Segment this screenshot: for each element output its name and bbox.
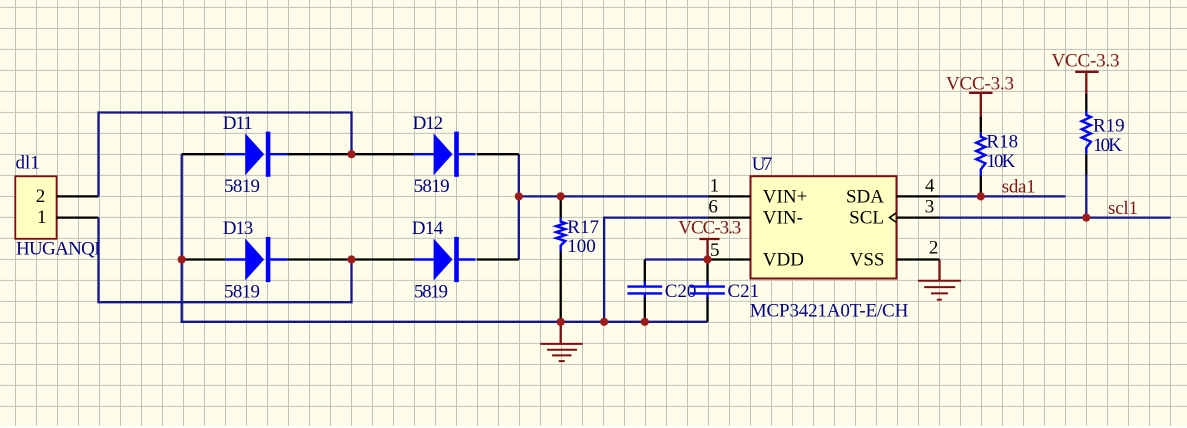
wire: bridge left vertical down to ground rail [182, 154, 708, 322]
label VCC-3.3 (pin5) [678, 218, 741, 239]
svg-text:SDA: SDA [846, 186, 884, 207]
junction node bridge row2 right [347, 255, 355, 263]
svg-text:SCL: SCL [849, 208, 884, 229]
label R19 value 10K [1093, 135, 1122, 156]
net label sda1 [1002, 176, 1036, 197]
pin wire between D11 and D12 (black) [287, 153, 415, 155]
label D14 value 5819 [414, 282, 448, 303]
connector dl1 [15, 176, 56, 239]
svg-text:VIN-: VIN- [763, 208, 803, 229]
U7 pin 2 VSS [850, 237, 940, 270]
svg-text:D14: D14 [412, 218, 444, 239]
diode D13 [225, 237, 287, 282]
pin 1 of dl1 [57, 216, 99, 218]
diode D14 [414, 237, 476, 282]
net label scl1 [1108, 198, 1138, 219]
capacitor C21 top pin [706, 260, 708, 283]
pin wire D11 anode (black) [182, 153, 226, 155]
resistor R18 top pin [980, 116, 982, 133]
capacitor C20 top pin [644, 260, 646, 283]
svg-text:D11: D11 [223, 113, 253, 134]
junction node VIN+ at bridge output [515, 192, 523, 200]
svg-text:HUGANQI: HUGANQI [16, 238, 101, 259]
wire: VDD net C20 corner to U7 pin5 [645, 258, 708, 260]
svg-text:5: 5 [710, 240, 720, 261]
label R17 [567, 217, 599, 238]
designator label dl1 [16, 153, 40, 174]
U7 pin 6 VIN- [708, 197, 803, 229]
svg-text:6: 6 [708, 197, 718, 218]
svg-text:R18: R18 [986, 132, 1018, 153]
svg-text:VSS: VSS [850, 249, 885, 270]
resistor R19 bottom pin [1085, 154, 1087, 175]
wire: dl1 pin1 down across bottom loop to bridge row2 [99, 218, 352, 303]
svg-text:VCC-3.3: VCC-3.3 [946, 74, 1014, 95]
svg-text:sda1: sda1 [1002, 176, 1036, 197]
pin wire D14 cathode to output vertical (black) [477, 258, 519, 260]
U7 pin 5 VDD [708, 240, 804, 271]
resistor R17 [556, 218, 565, 252]
pin wire D12 cathode to output vertical (black) [477, 153, 519, 155]
resistor R19 [1082, 111, 1091, 154]
junction node ground at R17 [557, 318, 565, 326]
svg-text:MCP3421A0T-E/CH: MCP3421A0T-E/CH [750, 301, 909, 322]
label R17 value 100 [567, 236, 596, 257]
wire: R19 bottom to scl1 [1085, 175, 1087, 218]
junction node bridge row1 right [347, 150, 355, 158]
svg-text:5819: 5819 [414, 176, 450, 197]
wire: sda1 net from U7 pin4 [940, 195, 1066, 197]
power VCC-3.3 at U7 pin5 [699, 239, 719, 260]
svg-text:C20: C20 [665, 281, 697, 302]
ground symbol at U7 VSS pin2 [918, 260, 961, 300]
power VCC-3.3 above R18 [969, 93, 992, 116]
capacitor C20 bottom pin [644, 298, 646, 322]
pin wire between D13 and D14 (black) [287, 258, 415, 260]
svg-text:5819: 5819 [224, 282, 260, 303]
svg-text:2: 2 [929, 237, 939, 258]
junction node ground at C20 [641, 318, 649, 326]
svg-text:5819: 5819 [414, 282, 448, 303]
label D13 [223, 218, 254, 239]
ground symbol below R17 [540, 322, 582, 361]
label D14 [412, 218, 444, 239]
wire: VIN- net from pin6 vertical to U7 pin6 [604, 218, 708, 322]
svg-text:D12: D12 [413, 113, 444, 134]
label R18 value 10K [986, 151, 1015, 172]
label C21 [728, 281, 760, 302]
comment MCP3421A0T-E/CH [750, 301, 909, 322]
resistor R19 top pin [1085, 94, 1087, 111]
svg-text:100: 100 [567, 236, 596, 257]
junction node VDD at C21 [703, 255, 711, 263]
svg-text:dl1: dl1 [16, 153, 40, 174]
svg-text:D13: D13 [223, 218, 254, 239]
svg-text:3: 3 [925, 197, 935, 218]
svg-text:5819: 5819 [224, 176, 260, 197]
svg-text:1: 1 [710, 176, 720, 197]
capacitor C20 [627, 282, 662, 299]
resistor R17 top pin [560, 196, 562, 217]
svg-text:R19: R19 [1093, 115, 1125, 136]
label D13 value 5819 [224, 282, 260, 303]
junction node scl1 at R19 [1082, 214, 1090, 222]
label VCC-3.3 (R18) [946, 74, 1014, 95]
label R19 [1093, 115, 1125, 136]
junction node ground at pin6 wire [600, 318, 608, 326]
label D11 value 5819 [224, 176, 260, 197]
svg-text:VIN+: VIN+ [763, 186, 808, 207]
power VCC-3.3 above R19 [1075, 72, 1098, 94]
label D11 [223, 113, 253, 134]
wire: bridge output vertical D12/D14 cathodes [518, 154, 520, 259]
resistor R18 [976, 133, 985, 176]
capacitor C21 [690, 282, 725, 299]
wire: dl1 pin2 up and across top to bridge row1 [99, 113, 352, 197]
U7 pin 3 SCL with clock arrow [849, 197, 939, 229]
diode D12 [414, 132, 476, 177]
svg-text:4: 4 [925, 176, 935, 197]
U7 pin 1 VIN+ [708, 176, 807, 208]
diode D11 [225, 132, 287, 177]
wire: scl1 net from U7 pin3 [940, 216, 1171, 218]
svg-text:U7: U7 [752, 154, 773, 175]
label D12 value 5819 [414, 176, 450, 197]
svg-text:10K: 10K [1093, 135, 1122, 156]
resistor R18 bottom pin [980, 175, 982, 196]
label D12 [413, 113, 444, 134]
junction node sda1 at R18 [977, 192, 985, 200]
svg-text:VCC-3.3: VCC-3.3 [678, 218, 741, 239]
op-amp/ADC U7 MCP3421 body [751, 176, 897, 278]
svg-text:VCC-3.3: VCC-3.3 [1052, 51, 1120, 72]
svg-text:scl1: scl1 [1108, 198, 1138, 219]
label VCC-3.3 (R19) [1052, 51, 1120, 72]
junction node VIN+ at R17 [557, 192, 565, 200]
label R18 [986, 132, 1018, 153]
U7 pin 4 SDA [846, 176, 940, 208]
svg-text:10K: 10K [986, 151, 1015, 172]
capacitor C21 bottom pin [706, 298, 708, 322]
designator U7 [752, 154, 773, 175]
svg-text:C21: C21 [728, 281, 760, 302]
label C20 [665, 281, 697, 302]
svg-text:R17: R17 [567, 217, 599, 238]
comment label HUGANQI [16, 238, 101, 259]
junction node bridge row2 left [178, 255, 186, 263]
pin wire D13 anode (black) [182, 258, 226, 260]
pin 2 of dl1 [57, 195, 99, 197]
wire: VIN+ net from bridge output to U7 pin1 [519, 195, 709, 197]
svg-text:VDD: VDD [763, 249, 804, 270]
svg-text:2: 2 [36, 186, 46, 207]
svg-text:1: 1 [37, 207, 47, 228]
resistor R17 bottom pin [560, 252, 562, 322]
